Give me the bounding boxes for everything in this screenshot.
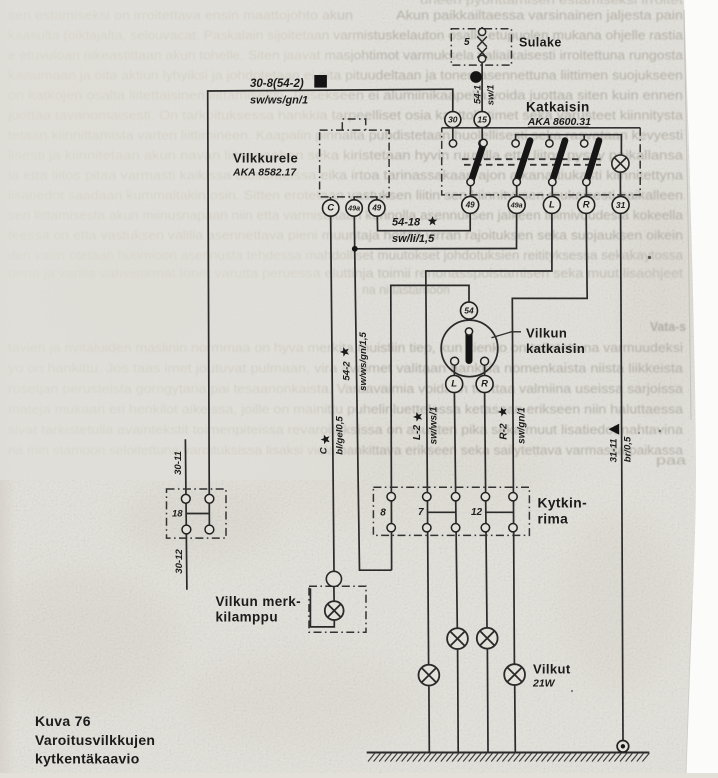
svg-text:sw/li/1,5: sw/li/1,5: [392, 233, 435, 245]
svg-text:Vilkun: Vilkun: [526, 326, 567, 341]
svg-text:AKA 8600.31: AKA 8600.31: [527, 116, 591, 128]
svg-text:31: 31: [616, 200, 626, 210]
svg-text:rima: rima: [538, 512, 569, 527]
svg-text:30-11: 30-11: [173, 451, 184, 475]
svg-text:sw/gn/1: sw/gn/1: [517, 407, 528, 444]
svg-text:15: 15: [477, 115, 487, 125]
svg-text:Kuva 76: Kuva 76: [35, 713, 91, 729]
svg-text:R-2: R-2: [499, 423, 510, 440]
svg-text:21W: 21W: [532, 678, 556, 690]
svg-text:L: L: [451, 379, 457, 390]
svg-text:8: 8: [380, 508, 386, 519]
svg-text:5: 5: [464, 37, 470, 48]
svg-text:7: 7: [418, 507, 424, 518]
svg-text:sw/ws/gn/1,5: sw/ws/gn/1,5: [358, 332, 369, 391]
svg-text:bl/gel0,5: bl/gel0,5: [335, 416, 346, 455]
svg-text:Vilkun merk-: Vilkun merk-: [216, 594, 302, 609]
svg-text:54-1: 54-1: [472, 85, 483, 104]
svg-text:30-12: 30-12: [174, 549, 185, 574]
svg-text:kytkentäkaavio: kytkentäkaavio: [35, 751, 140, 767]
svg-text:54-2: 54-2: [341, 361, 352, 381]
svg-text:R: R: [583, 199, 590, 210]
svg-text:sw/1: sw/1: [485, 85, 496, 106]
svg-text:sw/ws/1: sw/ws/1: [429, 406, 440, 444]
svg-text:kilamppu: kilamppu: [216, 610, 278, 625]
svg-text:AKA 8582.17: AKA 8582.17: [232, 167, 297, 179]
svg-text:30: 30: [448, 115, 458, 125]
svg-text:L-2: L-2: [412, 425, 423, 440]
svg-text:R: R: [481, 379, 488, 390]
svg-text:katkaisin: katkaisin: [526, 341, 585, 356]
svg-text:49a: 49a: [347, 204, 360, 213]
svg-text:br/0,5: br/0,5: [623, 436, 634, 462]
svg-text:sw/ws/gn/1: sw/ws/gn/1: [250, 95, 308, 107]
svg-text:C: C: [327, 203, 334, 214]
svg-text:54: 54: [464, 306, 474, 316]
svg-text:54-18: 54-18: [392, 217, 421, 229]
svg-text:C: C: [318, 446, 329, 454]
svg-text:49a: 49a: [510, 200, 523, 209]
svg-text:12: 12: [471, 507, 483, 518]
svg-text:49: 49: [465, 200, 475, 209]
svg-text:49: 49: [371, 204, 381, 213]
svg-text:Vilkut: Vilkut: [533, 662, 571, 677]
svg-text:Katkaisin: Katkaisin: [526, 100, 590, 115]
svg-text:Sulake: Sulake: [519, 36, 562, 50]
svg-text:Kytkin-: Kytkin-: [538, 496, 588, 511]
svg-text:L: L: [549, 199, 555, 210]
svg-text:Varoitusvilkkujen: Varoitusvilkkujen: [35, 732, 155, 748]
svg-text:Vilkkurele: Vilkkurele: [233, 151, 298, 166]
svg-text:30-8(54-2): 30-8(54-2): [250, 78, 304, 90]
svg-text:31-11: 31-11: [608, 439, 619, 463]
svg-text:18: 18: [172, 509, 183, 520]
